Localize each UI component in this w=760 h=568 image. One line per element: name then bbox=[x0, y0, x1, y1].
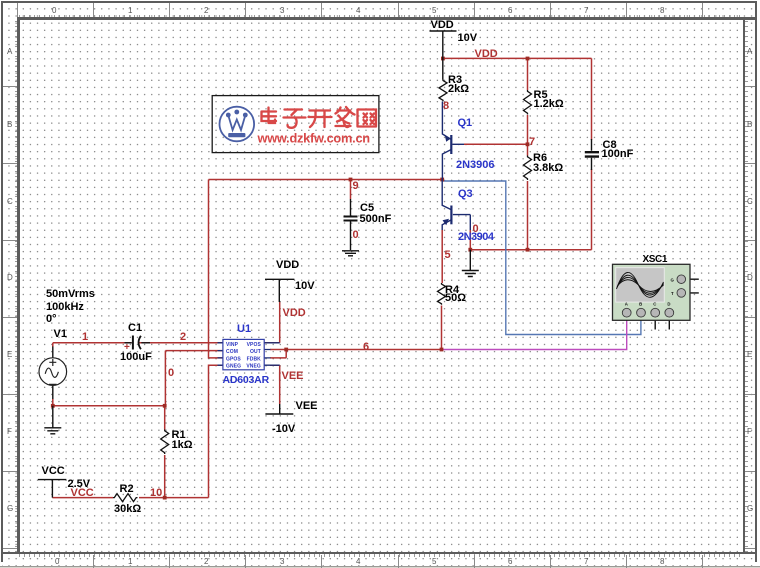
svg-text:A: A bbox=[625, 302, 628, 307]
svg-text:GNEG: GNEG bbox=[226, 364, 241, 370]
svg-text:B: B bbox=[639, 302, 642, 307]
svg-text:VINP: VINP bbox=[226, 342, 239, 348]
svg-text:FDBK: FDBK bbox=[247, 356, 262, 362]
svg-text:D: D bbox=[667, 302, 670, 307]
svg-text:OUT: OUT bbox=[250, 349, 261, 355]
svg-text:GPOS: GPOS bbox=[226, 356, 241, 362]
svg-text:COM: COM bbox=[226, 349, 238, 355]
svg-text:C: C bbox=[653, 302, 656, 307]
svg-text:VNEG: VNEG bbox=[246, 364, 261, 370]
svg-text:www.dzkfw.com.cn: www.dzkfw.com.cn bbox=[257, 130, 371, 145]
svg-text:VPOS: VPOS bbox=[247, 342, 262, 348]
svg-text:T: T bbox=[671, 291, 674, 296]
